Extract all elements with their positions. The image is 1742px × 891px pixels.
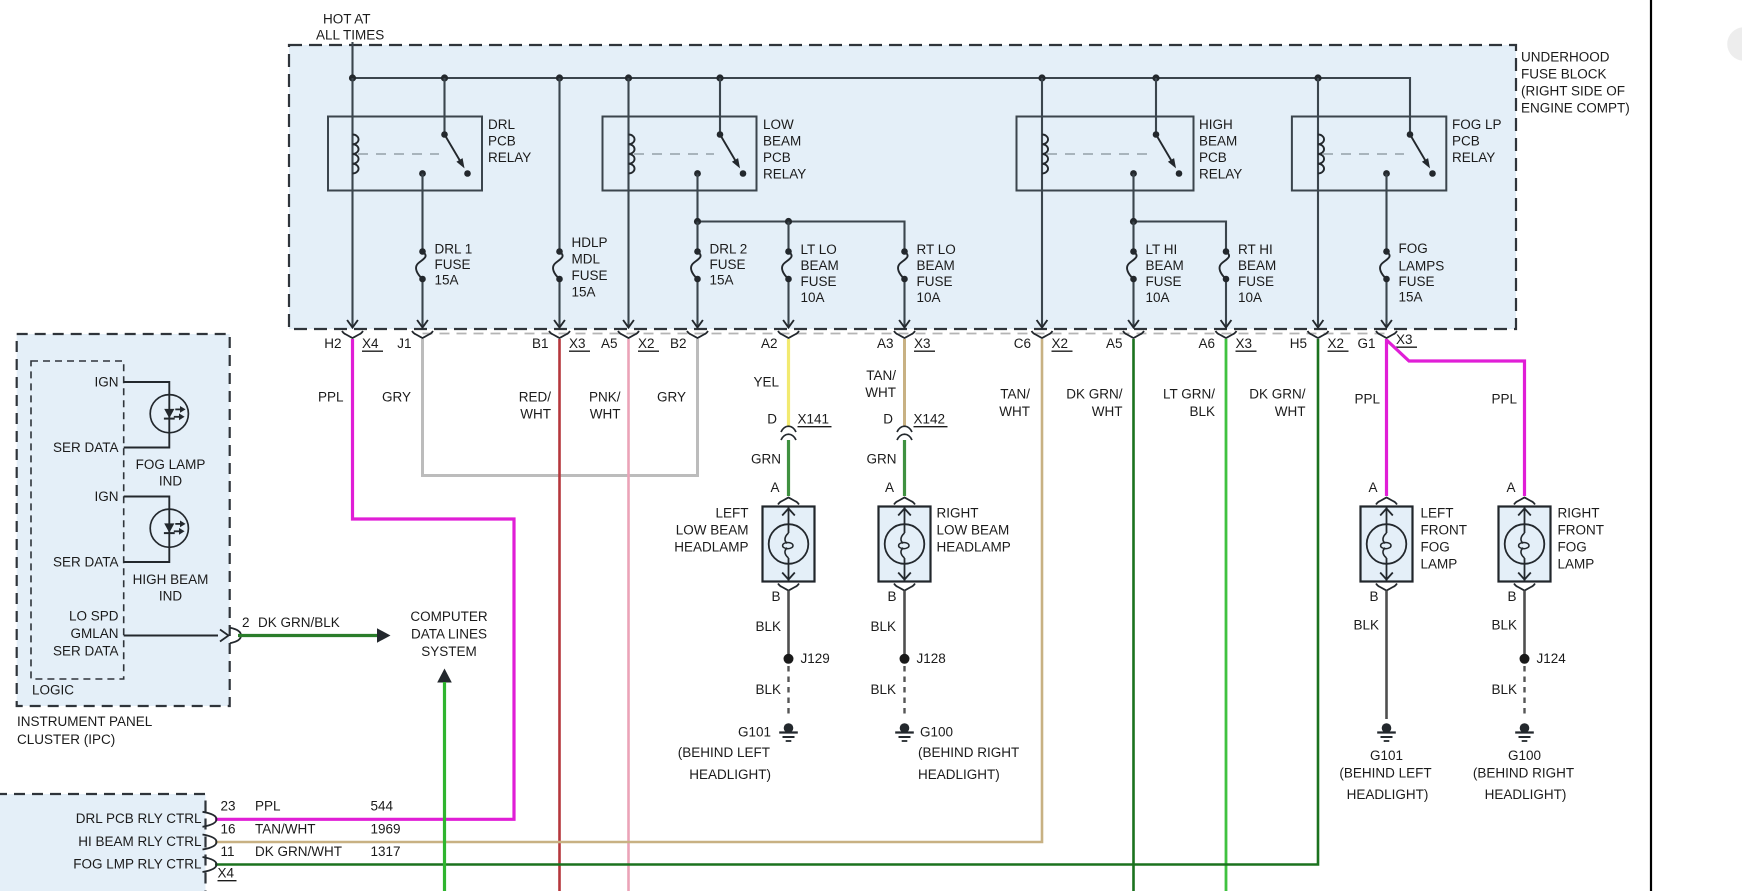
svg-text:FOG: FOG bbox=[1421, 540, 1450, 555]
connector at IPC edge (GMLAN) bbox=[220, 628, 241, 643]
svg-text:FOG: FOG bbox=[1558, 540, 1587, 555]
pin A bracket left front fog lamp bbox=[1376, 498, 1397, 505]
svg-text:PPL: PPL bbox=[1491, 392, 1517, 407]
label 11 DK GRN/WHT 1317 bbox=[221, 844, 401, 859]
lamp E4 RIGHT FRONT FOG LAMP bbox=[1499, 507, 1551, 582]
label TAN/WHT (C6) bbox=[999, 387, 1030, 420]
relay K4 mechanical link (dashed) bbox=[1323, 153, 1404, 155]
wire GMLAN serial data out of IPC bbox=[124, 635, 218, 637]
svg-text:G1: G1 bbox=[1357, 336, 1375, 351]
pin A bracket right low beam headlamp bbox=[894, 498, 915, 505]
wire: RT LO fuse to pin A3 bbox=[903, 279, 905, 327]
svg-text:YEL: YEL bbox=[753, 375, 779, 390]
relay K3 coil bbox=[1042, 135, 1048, 174]
svg-text:RIGHT: RIGHT bbox=[937, 506, 979, 521]
svg-text:GMLAN: GMLAN bbox=[70, 626, 118, 641]
wire: K3 output to high-beam fuse sub-bus bbox=[1134, 174, 1227, 252]
lamp E2 RIGHT LOW BEAM HEADLAMP bbox=[879, 507, 931, 582]
label DK GRN/WHT (H5) bbox=[1249, 387, 1306, 420]
svg-text:GRN: GRN bbox=[751, 452, 781, 467]
svg-text:15A: 15A bbox=[572, 285, 596, 300]
svg-text:LAMPS: LAMPS bbox=[1399, 259, 1445, 274]
svg-text:BEAM: BEAM bbox=[1238, 258, 1276, 273]
fuse F2 HDLP MDL 15A bbox=[556, 248, 563, 255]
svg-text:FUSE: FUSE bbox=[1399, 274, 1435, 289]
label RED/WHT bbox=[519, 390, 552, 422]
label TAN/WHT (A3) bbox=[865, 368, 896, 400]
relay K4 switch bbox=[1383, 131, 1436, 177]
svg-text:HEADLIGHT): HEADLIGHT) bbox=[1347, 787, 1429, 802]
junction J129 bbox=[784, 654, 794, 664]
pin B1 connector bracket bbox=[532, 331, 590, 351]
svg-text:RELAY: RELAY bbox=[1199, 167, 1242, 182]
svg-text:A2: A2 bbox=[761, 336, 778, 351]
svg-text:GRN: GRN bbox=[867, 452, 897, 467]
svg-text:DK GRN/WHT: DK GRN/WHT bbox=[255, 844, 342, 859]
svg-text:FRONT: FRONT bbox=[1421, 523, 1468, 538]
ground G101 (left fog lamp) bbox=[1382, 723, 1392, 733]
wire PPL branch to right fog lamp bbox=[1387, 340, 1525, 496]
svg-text:15A: 15A bbox=[435, 273, 459, 288]
svg-text:DK GRN/: DK GRN/ bbox=[1066, 387, 1123, 402]
svg-text:H5: H5 bbox=[1290, 336, 1307, 351]
svg-text:(BEHIND LEFT: (BEHIND LEFT bbox=[678, 745, 770, 760]
pin G1 connector bracket bbox=[1357, 331, 1417, 351]
node: bus junction at HIGH BEAM switch bbox=[1152, 74, 1159, 81]
relay K4 FOG LP PCB RELAY box bbox=[1292, 117, 1446, 191]
svg-text:X3: X3 bbox=[1236, 336, 1253, 351]
svg-text:10A: 10A bbox=[917, 290, 941, 305]
pin B bracket left fog lamp bbox=[1376, 584, 1397, 591]
svg-text:B1: B1 bbox=[532, 336, 549, 351]
svg-text:J128: J128 bbox=[917, 651, 946, 666]
relay K1 DRL PCB RELAY box bbox=[328, 117, 482, 191]
svg-text:X2: X2 bbox=[1052, 336, 1069, 351]
svg-text:RT HI: RT HI bbox=[1238, 242, 1273, 257]
svg-text:DRL: DRL bbox=[488, 117, 515, 132]
svg-text:SER DATA: SER DATA bbox=[53, 555, 119, 570]
svg-text:PCB: PCB bbox=[763, 150, 791, 165]
wire: LT HI fuse drop bbox=[1132, 222, 1134, 252]
svg-text:J1: J1 bbox=[397, 336, 411, 351]
label INSTRUMENT PANEL CLUSTER (IPC) bbox=[17, 714, 153, 747]
pin A bracket left low beam headlamp bbox=[778, 498, 799, 505]
svg-text:A: A bbox=[885, 480, 894, 495]
junction J128 bbox=[900, 654, 910, 664]
svg-text:HIGH: HIGH bbox=[1199, 117, 1233, 132]
svg-text:SER DATA: SER DATA bbox=[53, 644, 119, 659]
svg-text:HEADLAMP: HEADLAMP bbox=[674, 540, 748, 555]
svg-text:BLK: BLK bbox=[1491, 682, 1517, 697]
wire IGN to fog lamp indicator bbox=[124, 382, 170, 395]
svg-text:IGN: IGN bbox=[94, 489, 118, 504]
svg-text:SYSTEM: SYSTEM bbox=[421, 644, 477, 659]
wire: bus drop to DRL relay switch bbox=[443, 78, 445, 135]
connector bracket DRL PCB RLY CTRL bbox=[203, 812, 217, 827]
wire DK GRN/BLK to computer data lines system bbox=[238, 634, 378, 637]
lamp E3 LEFT FRONT FOG LAMP bbox=[1361, 507, 1413, 582]
fuse F6 LT HI BEAM 10A bbox=[1130, 248, 1137, 255]
svg-text:BLK: BLK bbox=[870, 619, 896, 634]
svg-text:TAN/WHT: TAN/WHT bbox=[255, 822, 316, 837]
fuse F7 RT HI BEAM 10A bbox=[1223, 248, 1230, 255]
svg-text:10A: 10A bbox=[1146, 290, 1170, 305]
relay K3 mechanical link (dashed) bbox=[1047, 153, 1150, 155]
svg-text:A: A bbox=[770, 480, 779, 495]
inline connector X141 bbox=[767, 412, 831, 440]
svg-text:X3: X3 bbox=[569, 336, 586, 351]
svg-text:LEFT: LEFT bbox=[1421, 506, 1454, 521]
label LT GRN/BLK (A6) bbox=[1163, 387, 1215, 420]
wire high beam indicator to SER DATA bbox=[124, 547, 170, 562]
node: bus junction at HIGH BEAM coil bbox=[1038, 74, 1045, 81]
wire PNK/WHT from pin A5 bbox=[627, 339, 630, 891]
svg-text:TAN/: TAN/ bbox=[866, 368, 896, 383]
relay K2 coil bbox=[629, 135, 635, 174]
svg-text:BLK: BLK bbox=[1189, 404, 1215, 419]
svg-text:X3: X3 bbox=[1396, 332, 1413, 347]
wire: bus drop to LOW BEAM relay switch bbox=[719, 78, 721, 135]
relay K2 switch bbox=[694, 131, 746, 177]
svg-text:X2: X2 bbox=[1328, 336, 1345, 351]
svg-text:UNDERHOOD: UNDERHOOD bbox=[1521, 50, 1610, 65]
svg-text:LO SPD: LO SPD bbox=[69, 609, 119, 624]
svg-text:X141: X141 bbox=[798, 412, 830, 427]
svg-text:FRONT: FRONT bbox=[1558, 523, 1605, 538]
svg-text:GRY: GRY bbox=[382, 390, 411, 405]
svg-text:B: B bbox=[1507, 589, 1516, 604]
svg-text:(RIGHT SIDE OF: (RIGHT SIDE OF bbox=[1521, 84, 1625, 99]
svg-text:1317: 1317 bbox=[371, 844, 401, 859]
wire BLK (dashed) J128 to G100 bbox=[903, 666, 905, 718]
svg-text:FOG LP: FOG LP bbox=[1452, 117, 1502, 132]
svg-text:LOGIC: LOGIC bbox=[32, 683, 74, 698]
pin B bracket left headlamp bbox=[778, 584, 799, 591]
pin B bracket right headlamp bbox=[894, 584, 915, 591]
arrow into pin H5 bbox=[1313, 320, 1324, 328]
relay K2 mechanical link (dashed) bbox=[634, 153, 714, 155]
svg-text:G101: G101 bbox=[1370, 748, 1403, 763]
pin A bracket right front fog lamp bbox=[1514, 498, 1535, 505]
svg-text:LOW BEAM: LOW BEAM bbox=[937, 523, 1010, 538]
fuse F5 RT LO BEAM 10A bbox=[901, 248, 908, 255]
wire BLK (dashed) J129 to G101 bbox=[787, 666, 789, 718]
svg-text:J129: J129 bbox=[801, 651, 830, 666]
relay K1 mechanical link (dashed) bbox=[358, 153, 439, 155]
relay K4 coil bbox=[1318, 135, 1324, 174]
svg-text:DK GRN/BLK: DK GRN/BLK bbox=[258, 615, 340, 630]
svg-text:FUSE: FUSE bbox=[435, 257, 471, 272]
svg-text:G100: G100 bbox=[920, 725, 953, 740]
svg-text:RT LO: RT LO bbox=[917, 242, 956, 257]
svg-text:B: B bbox=[887, 589, 896, 604]
svg-text:23: 23 bbox=[221, 799, 236, 814]
svg-text:BLK: BLK bbox=[755, 682, 781, 697]
relay K3 HIGH BEAM PCB RELAY box bbox=[1017, 117, 1194, 191]
pin H5 connector bracket bbox=[1290, 331, 1349, 351]
wire BLK (dashed) J124 to G100 bbox=[1523, 666, 1525, 718]
LED high beam indicator bbox=[150, 509, 188, 547]
label FOG LAMP IND bbox=[136, 457, 206, 489]
arrow into pin C6 bbox=[1037, 320, 1048, 328]
svg-text:RELAY: RELAY bbox=[488, 150, 531, 165]
svg-text:IND: IND bbox=[159, 589, 183, 604]
svg-text:HDLP: HDLP bbox=[572, 235, 608, 250]
svg-text:LAMP: LAMP bbox=[1421, 557, 1458, 572]
pin B2 connector bracket bbox=[670, 331, 708, 351]
node: bus junction at FOG LP coil bbox=[1314, 74, 1321, 81]
svg-text:G101: G101 bbox=[738, 725, 771, 740]
pin J1 connector bracket bbox=[397, 331, 433, 351]
svg-text:HI BEAM RLY CTRL: HI BEAM RLY CTRL bbox=[78, 834, 202, 849]
svg-text:PNK/: PNK/ bbox=[589, 390, 621, 405]
wire: bus drop to DRL relay coil / pin H2 bbox=[351, 78, 353, 327]
arrow into pin J1 bbox=[417, 320, 428, 328]
wire YEL from pin A2 to X141 bbox=[787, 339, 790, 427]
svg-text:10A: 10A bbox=[1238, 290, 1262, 305]
svg-text:A3: A3 bbox=[877, 336, 894, 351]
arrow up to computer data lines system bbox=[437, 669, 452, 683]
svg-text:WHT: WHT bbox=[1275, 404, 1306, 419]
svg-text:1969: 1969 bbox=[371, 822, 401, 837]
wire: bus drop through HIGH BEAM coil to pin C6 bbox=[1041, 78, 1043, 327]
pin A3 connector bracket bbox=[877, 331, 935, 351]
svg-text:RED/: RED/ bbox=[519, 390, 552, 405]
node: sub-bus junction LT LO fuse bbox=[785, 218, 792, 225]
svg-text:G100: G100 bbox=[1508, 748, 1541, 763]
svg-text:INSTRUMENT PANEL: INSTRUMENT PANEL bbox=[17, 714, 153, 729]
svg-text:FOG LMP RLY CTRL: FOG LMP RLY CTRL bbox=[73, 857, 202, 872]
svg-text:BLK: BLK bbox=[755, 619, 781, 634]
svg-text:B: B bbox=[771, 589, 780, 604]
svg-text:CLUSTER (IPC): CLUSTER (IPC) bbox=[17, 732, 115, 747]
underhood fuse block (dashed box) bbox=[289, 45, 1516, 329]
connector face dashed line under fuse block bbox=[423, 333, 1387, 335]
svg-text:X3: X3 bbox=[914, 336, 931, 351]
svg-text:PPL: PPL bbox=[318, 390, 344, 405]
svg-text:HEADLAMP: HEADLAMP bbox=[937, 540, 1011, 555]
svg-text:ENGINE COMPT): ENGINE COMPT) bbox=[1521, 101, 1630, 116]
arrow into pin B1 bbox=[554, 320, 565, 328]
arrow into pin A5b bbox=[1128, 320, 1139, 328]
svg-text:10A: 10A bbox=[801, 290, 825, 305]
svg-text:IND: IND bbox=[159, 474, 183, 489]
fuse F3 DRL 2 15A bbox=[694, 248, 701, 255]
relay K1 coil bbox=[353, 135, 359, 174]
relay K1 switch bbox=[419, 131, 471, 177]
svg-text:ALL TIMES: ALL TIMES bbox=[316, 28, 384, 43]
label HIGH BEAM IND bbox=[133, 572, 209, 604]
label COMPUTER DATA LINES SYSTEM bbox=[410, 609, 488, 659]
wire: bus drop through FOG LP coil to pin H5 bbox=[1317, 78, 1319, 327]
svg-text:D: D bbox=[767, 412, 777, 427]
scrollbar knob (top right) bbox=[1727, 27, 1742, 61]
wire GRN X142 to right low beam headlamp bbox=[903, 440, 906, 496]
svg-text:HOT AT: HOT AT bbox=[323, 12, 371, 27]
svg-text:PCB: PCB bbox=[1452, 134, 1480, 149]
pin B bracket right fog lamp bbox=[1514, 584, 1535, 591]
svg-text:RELAY: RELAY bbox=[763, 167, 806, 182]
pin A5 connector bracket bbox=[1106, 331, 1144, 351]
svg-text:LAMP: LAMP bbox=[1558, 557, 1595, 572]
arrow into pin G1 bbox=[1381, 320, 1392, 328]
svg-text:15A: 15A bbox=[1399, 290, 1423, 305]
svg-text:HEADLIGHT): HEADLIGHT) bbox=[689, 767, 771, 782]
svg-text:X142: X142 bbox=[914, 412, 946, 427]
node: bus junction at LOW BEAM coil bbox=[625, 74, 632, 81]
svg-text:DRL 2: DRL 2 bbox=[710, 242, 748, 257]
pin A5 connector bracket bbox=[601, 331, 659, 351]
wire: K4 output to FOG LAMPS fuse bbox=[1385, 174, 1387, 252]
svg-text:FOG: FOG bbox=[1399, 241, 1428, 256]
wire: K2 output to low-beam fuse sub-bus bbox=[698, 174, 905, 252]
wire DK GRN/WHT from pin H5 to FOG LMP RLY CTRL bbox=[215, 339, 1318, 865]
fuse F4 LT LO BEAM 10A bbox=[785, 248, 792, 255]
svg-text:COMPUTER: COMPUTER bbox=[410, 609, 488, 624]
svg-text:DK GRN/: DK GRN/ bbox=[1249, 387, 1306, 402]
svg-text:BLK: BLK bbox=[870, 682, 896, 697]
arrow into pin A2 bbox=[783, 320, 794, 328]
arrow into pin B2 bbox=[692, 320, 703, 328]
wire DK GRN/BLK serial data (vertical) bbox=[443, 682, 446, 891]
wire: HDLP MDL fuse to pin B1 bbox=[558, 279, 560, 327]
svg-text:A: A bbox=[1368, 480, 1377, 495]
wire BLK right fog lamp to J124 bbox=[1523, 591, 1526, 655]
svg-text:PCB: PCB bbox=[488, 134, 516, 149]
pin A6 connector bracket bbox=[1198, 331, 1256, 351]
svg-text:WHT: WHT bbox=[865, 385, 896, 400]
svg-text:FOG LAMP: FOG LAMP bbox=[136, 457, 206, 472]
arrow into computer data lines system bbox=[377, 628, 391, 642]
ground G101 (left headlamp) bbox=[784, 723, 794, 733]
node: sub-bus junction LT HI fuse bbox=[1130, 218, 1137, 225]
svg-text:X4: X4 bbox=[362, 336, 379, 351]
wire IGN to high beam indicator bbox=[124, 497, 170, 510]
svg-text:WHT: WHT bbox=[520, 407, 551, 422]
wire DK GRN/WHT from pin A5 bbox=[1132, 339, 1135, 891]
wire: battery feed into fuse block bbox=[351, 42, 353, 78]
wire: bus drop through LOW BEAM coil to pin A5 bbox=[627, 78, 629, 327]
svg-text:BEAM: BEAM bbox=[1199, 134, 1237, 149]
svg-text:DRL 1: DRL 1 bbox=[435, 242, 473, 257]
svg-text:BEAM: BEAM bbox=[1146, 258, 1184, 273]
svg-text:BEAM: BEAM bbox=[763, 134, 801, 149]
svg-text:WHT: WHT bbox=[1092, 404, 1123, 419]
svg-text:A6: A6 bbox=[1198, 336, 1215, 351]
wire RED/WHT from pin B1 bbox=[558, 339, 561, 891]
LED fog lamp indicator bbox=[150, 395, 188, 433]
wire: LT LO fuse to pin A2 bbox=[787, 279, 789, 327]
svg-text:C6: C6 bbox=[1014, 336, 1031, 351]
svg-text:SER DATA: SER DATA bbox=[53, 440, 119, 455]
svg-text:J124: J124 bbox=[1537, 651, 1567, 666]
wire BLK left headlamp to J129 bbox=[787, 591, 790, 655]
svg-text:LOW BEAM: LOW BEAM bbox=[676, 523, 749, 538]
label DK GRN/WHT (A5) bbox=[1066, 387, 1123, 420]
node: bus junction at HDLP MDL fuse bbox=[556, 74, 563, 81]
svg-text:(BEHIND RIGHT: (BEHIND RIGHT bbox=[918, 745, 1019, 760]
pin C6 connector bracket bbox=[1014, 331, 1073, 351]
wire fog lamp indicator to SER DATA bbox=[124, 433, 170, 448]
label PNK/WHT bbox=[589, 390, 621, 422]
svg-text:RELAY: RELAY bbox=[1452, 150, 1495, 165]
svg-text:LEFT: LEFT bbox=[715, 506, 748, 521]
LOGIC box (dashed) bbox=[31, 361, 124, 679]
svg-text:LT LO: LT LO bbox=[801, 242, 837, 257]
wire: FOG LAMPS fuse to pin G1 bbox=[1385, 279, 1387, 327]
node: bus junction at LOW BEAM switch bbox=[716, 74, 723, 81]
svg-text:X4: X4 bbox=[218, 866, 235, 881]
IPC lower connector box bbox=[0, 794, 206, 891]
svg-text:FUSE: FUSE bbox=[710, 257, 746, 272]
arrow into pin A3 bbox=[899, 320, 910, 328]
pin H2 connector bracket bbox=[324, 331, 383, 351]
node: bus junction at DRL coil bbox=[349, 74, 356, 81]
fuse F8 FOG LAMPS 15A bbox=[1383, 248, 1390, 255]
svg-text:D: D bbox=[883, 412, 893, 427]
wire BLK left fog lamp to G101 bbox=[1385, 591, 1388, 720]
wire BLK right headlamp to J128 bbox=[903, 591, 906, 655]
connector bracket HI BEAM RLY CTRL bbox=[203, 835, 217, 850]
arrow into pin H2 bbox=[347, 320, 358, 328]
svg-text:BEAM: BEAM bbox=[801, 258, 839, 273]
svg-text:GRY: GRY bbox=[657, 390, 686, 405]
inline connector X142 bbox=[883, 412, 947, 440]
fuse F1 DRL 1 15A bbox=[419, 248, 426, 255]
wire TAN/WHT from pin A3 to X142 bbox=[903, 339, 906, 427]
arrow into pin A5 bbox=[623, 320, 634, 328]
svg-text:15A: 15A bbox=[710, 273, 734, 288]
wire: RT HI fuse to pin A6 bbox=[1225, 279, 1227, 327]
svg-text:B: B bbox=[1369, 589, 1378, 604]
label 23 PPL 544 bbox=[221, 799, 394, 814]
wire: sub-bus drop to LT LO fuse bbox=[787, 222, 789, 252]
svg-text:544: 544 bbox=[371, 799, 394, 814]
relay K2 LOW BEAM PCB RELAY box bbox=[603, 117, 757, 191]
label: HOT AT ALL TIMES bbox=[316, 12, 384, 43]
svg-text:A5: A5 bbox=[601, 336, 618, 351]
svg-text:FUSE: FUSE bbox=[572, 268, 608, 283]
svg-text:11: 11 bbox=[221, 844, 235, 859]
svg-text:DATA LINES: DATA LINES bbox=[411, 627, 487, 642]
svg-text:FUSE: FUSE bbox=[917, 274, 953, 289]
svg-text:HEADLIGHT): HEADLIGHT) bbox=[1485, 787, 1567, 802]
svg-text:A5: A5 bbox=[1106, 336, 1123, 351]
svg-text:IGN: IGN bbox=[94, 375, 118, 390]
svg-text:16: 16 bbox=[221, 822, 236, 837]
svg-text:TAN/: TAN/ bbox=[1000, 387, 1030, 402]
svg-text:BLK: BLK bbox=[1491, 618, 1517, 633]
wire LT GRN/BLK from pin A6 bbox=[1225, 339, 1228, 891]
svg-text:RIGHT: RIGHT bbox=[1558, 506, 1600, 521]
wire: bus drop to HDLP MDL fuse / pin B1 bbox=[558, 78, 560, 252]
svg-text:A: A bbox=[1506, 480, 1515, 495]
instrument panel cluster (IPC) box bbox=[17, 334, 230, 706]
svg-text:MDL: MDL bbox=[572, 252, 601, 267]
node: bus junction at DRL switch bbox=[441, 74, 448, 81]
svg-text:H2: H2 bbox=[324, 336, 341, 351]
svg-text:PPL: PPL bbox=[1354, 392, 1380, 407]
svg-text:(BEHIND RIGHT: (BEHIND RIGHT bbox=[1473, 766, 1574, 781]
wire: K1 output to DRL 1 fuse bbox=[421, 174, 423, 252]
node: sub-bus junction DRL 2 fuse bbox=[694, 218, 701, 225]
svg-text:FUSE: FUSE bbox=[801, 274, 837, 289]
lamp E1 LEFT LOW BEAM HEADLAMP bbox=[763, 507, 815, 582]
arrow into pin A6 bbox=[1221, 320, 1232, 328]
wire: LT HI fuse to pin A5 bbox=[1132, 279, 1134, 327]
wire: DRL 1 fuse to pin J1 bbox=[421, 279, 423, 327]
svg-text:WHT: WHT bbox=[590, 407, 621, 422]
